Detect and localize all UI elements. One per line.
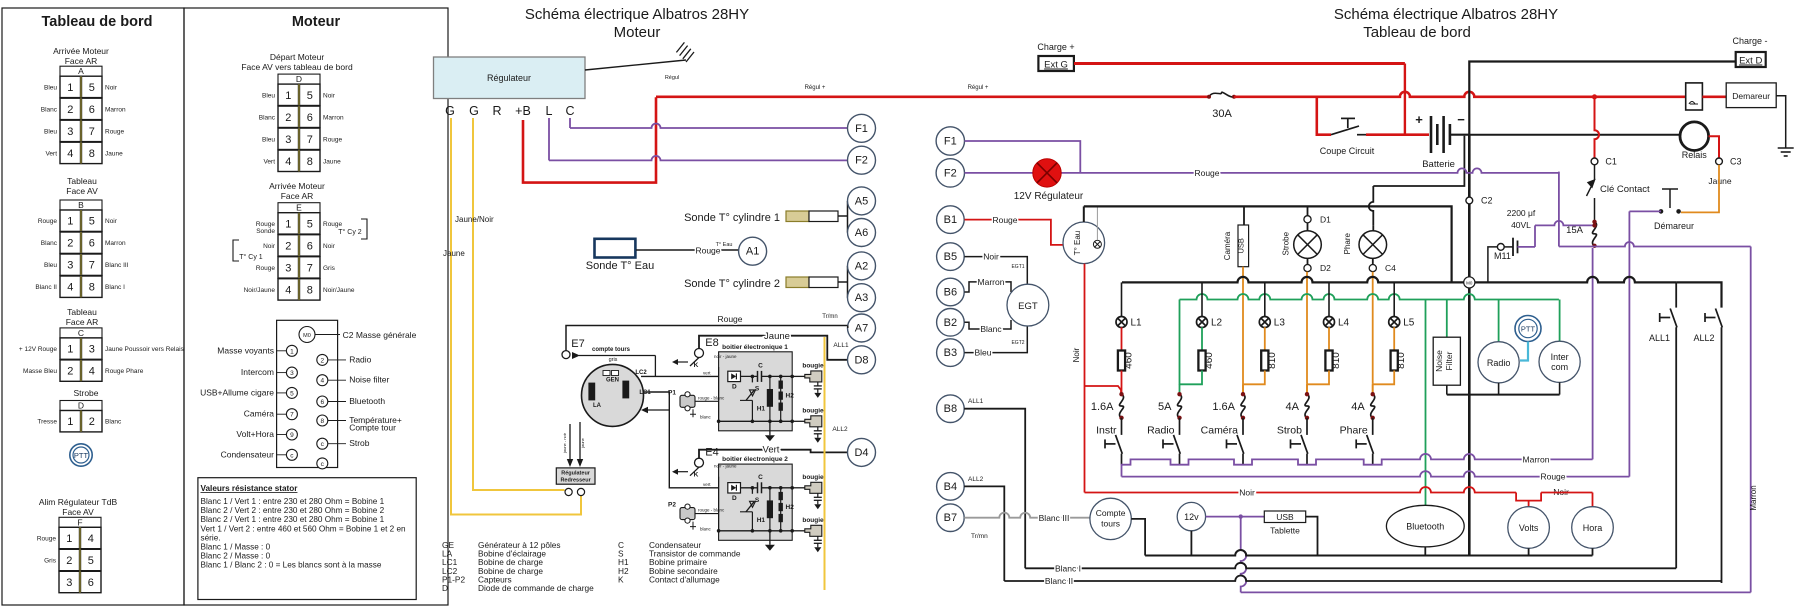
- svg-text:Vert: Vert: [263, 158, 275, 165]
- svg-text:C4: C4: [1385, 263, 1396, 273]
- node B5: [937, 243, 965, 271]
- svg-text:1: 1: [285, 218, 291, 230]
- wire L1 resistor to fuse 1.6A: [1121, 371, 1123, 395]
- svg-text:Marron: Marron: [978, 277, 1005, 287]
- svg-text:Marron: Marron: [1749, 485, 1758, 510]
- svg-text:Bleu: Bleu: [44, 84, 57, 91]
- svg-text:Masse Bleu: Masse Bleu: [23, 368, 57, 375]
- wire red C1 drop: [1595, 97, 1600, 158]
- svg-text:Régulateur: Régulateur: [561, 471, 591, 477]
- svg-text:Caméra: Caméra: [1201, 425, 1239, 437]
- wire violet demarreur down: [1629, 210, 1661, 212]
- node E7: [562, 351, 570, 359]
- svg-text:Face AR: Face AR: [65, 56, 98, 66]
- svg-text:F2: F2: [944, 167, 957, 179]
- svg-text:Blanc I: Blanc I: [105, 284, 125, 291]
- svg-text:810: 810: [1267, 352, 1278, 369]
- svg-text:noir - jaune: noir - jaune: [714, 354, 737, 359]
- node M11: [1497, 244, 1504, 251]
- svg-text:ALL2: ALL2: [832, 426, 848, 433]
- bottom purple marron line: [1241, 591, 1751, 593]
- svg-text:2: 2: [67, 366, 73, 378]
- wire L5 resistor to fuse 4A: [1373, 371, 1395, 385]
- svg-text:Valeurs résistance stator: Valeurs résistance stator: [201, 484, 299, 493]
- svg-text:Rouge: Rouge: [1540, 472, 1565, 482]
- Hora gauge: [1572, 507, 1614, 549]
- camera USB branch: [1243, 206, 1245, 225]
- 12v gauge: [1177, 502, 1205, 530]
- block pin 5 USB+Allume cigare: [286, 387, 297, 398]
- main line boitier 1: [741, 375, 757, 377]
- svg-text:Rouge: Rouge: [256, 265, 276, 272]
- svg-text:Noir: Noir: [983, 252, 999, 262]
- svg-text:Alim Régulateur TdB: Alim Régulateur TdB: [39, 497, 118, 507]
- svg-text:Arrivée Moteur: Arrivée Moteur: [269, 181, 325, 191]
- svg-text:Marron: Marron: [105, 240, 126, 247]
- svg-text:Jaune: Jaune: [764, 331, 790, 342]
- svg-text:+ 12V Rouge: + 12V Rouge: [19, 346, 58, 353]
- svg-text:2: 2: [67, 104, 73, 116]
- svg-text:Tableau: Tableau: [67, 307, 97, 317]
- svg-text:G: G: [445, 104, 455, 118]
- wire jaune G1: [473, 118, 565, 490]
- PTT button: [1515, 316, 1541, 342]
- svg-text:4: 4: [320, 378, 324, 385]
- svg-text:USB: USB: [1276, 512, 1294, 522]
- coil H1 2: [767, 501, 772, 518]
- svg-text:LA: LA: [593, 403, 602, 409]
- svg-text:3: 3: [290, 370, 294, 377]
- svg-text:Schéma électrique Albatros 28H: Schéma électrique Albatros 28HY: [525, 6, 749, 23]
- svg-text:810: 810: [1396, 352, 1407, 369]
- svg-text:1: 1: [290, 348, 294, 355]
- svg-text:5: 5: [89, 82, 95, 94]
- svg-text:Bleu: Bleu: [44, 262, 57, 269]
- node D1: [1304, 216, 1311, 223]
- wire rouge sonde eau to A1: [636, 249, 739, 251]
- svg-text:4: 4: [67, 148, 73, 160]
- svg-text:Noise: Noise: [1434, 350, 1444, 372]
- svg-text:Noir: Noir: [105, 84, 118, 91]
- svg-text:12V Régulateur: 12V Régulateur: [1014, 191, 1084, 202]
- svg-text:Rouge: Rouge: [37, 536, 57, 543]
- svg-text:Blanc: Blanc: [41, 106, 58, 113]
- svg-text:T° Eau: T° Eau: [1073, 231, 1082, 256]
- svg-text:C: C: [78, 328, 84, 338]
- svg-text:4: 4: [285, 156, 291, 168]
- svg-text:8: 8: [307, 284, 313, 296]
- redresseur terminals: [565, 488, 572, 495]
- svg-text:3: 3: [67, 260, 73, 272]
- svg-text:B8: B8: [944, 403, 957, 415]
- svg-text:2: 2: [66, 555, 72, 567]
- svg-text:Face AV: Face AV: [62, 507, 94, 517]
- wire jaune vertical right of bougies: [824, 337, 826, 590]
- svg-text:460: 460: [1124, 352, 1135, 369]
- svg-text:6: 6: [89, 104, 95, 116]
- block pin 3 Intercom: [286, 367, 297, 378]
- svg-text:blanc: blanc: [700, 527, 712, 532]
- svg-text:D: D: [732, 383, 737, 390]
- generator GEN: [582, 364, 644, 426]
- node F2 motor side: [848, 146, 876, 174]
- svg-text:L1: L1: [1131, 318, 1143, 329]
- block pin 4 Noise filter: [317, 375, 328, 386]
- svg-text:noir - jaune: noir - jaune: [714, 464, 737, 469]
- wire red relay to demareur box: [1702, 96, 1726, 99]
- svg-text:PTT: PTT: [74, 451, 89, 460]
- svg-text:8: 8: [307, 156, 313, 168]
- wire violet 15A bottom to marron vertical right: [1595, 242, 1751, 247]
- transistor S 1: [746, 390, 754, 400]
- battery: [1430, 116, 1433, 153]
- svg-text:Face AV vers tableau de bord: Face AV vers tableau de bord: [241, 62, 353, 72]
- coil LC1 LC2: [623, 381, 629, 398]
- svg-text:8: 8: [89, 148, 95, 160]
- svg-text:K: K: [694, 472, 699, 479]
- svg-text:Instr: Instr: [1096, 425, 1117, 437]
- node F1 panel side: [936, 127, 964, 155]
- wire cyan PTT to radio: [1520, 342, 1528, 361]
- svg-text:Bleu: Bleu: [974, 348, 991, 358]
- svg-text:LC2: LC2: [635, 370, 647, 376]
- wire red drop to coupe circuit: [1317, 97, 1331, 135]
- svg-text:B4: B4: [944, 481, 957, 493]
- svg-text:−: −: [1457, 112, 1465, 127]
- coil H1 1: [767, 389, 772, 406]
- svg-text:M0: M0: [303, 333, 311, 339]
- boitier electronique 1 box: [719, 352, 793, 431]
- svg-text:H2: H2: [786, 392, 795, 399]
- wire violet L to F2: [549, 156, 848, 161]
- svg-text:S: S: [755, 497, 760, 504]
- svg-text:Noir: Noir: [263, 243, 276, 250]
- svg-text:8: 8: [320, 418, 324, 425]
- svg-text:Noir/Jaune: Noir/Jaune: [244, 287, 276, 294]
- svg-text:D2: D2: [1320, 263, 1331, 273]
- svg-text:B7: B7: [944, 512, 957, 524]
- svg-text:ALL2: ALL2: [968, 476, 984, 483]
- svg-text:A6: A6: [855, 227, 868, 239]
- wire Vert E4 to D4: [699, 450, 848, 459]
- wire noir B4 to Blanc II line: [964, 486, 1004, 581]
- svg-text:15A: 15A: [1566, 225, 1584, 236]
- svg-text:com: com: [1551, 362, 1568, 372]
- compte tours arrow line: [572, 352, 580, 359]
- Volts gauge: [1508, 507, 1550, 549]
- svg-text:Blanc 2 / Masse : 0: Blanc 2 / Masse : 0: [201, 552, 271, 561]
- svg-text:3: 3: [67, 126, 73, 138]
- gen arrow lower: [641, 407, 648, 413]
- node D2: [1304, 265, 1311, 272]
- svg-text:F1: F1: [944, 136, 957, 148]
- wire rouge +B to regul+: [523, 97, 656, 182]
- svg-text:Rouge: Rouge: [1194, 168, 1219, 178]
- wire noir battery to relais: [1469, 134, 1680, 136]
- svg-text:Rouge: Rouge: [38, 218, 58, 225]
- svg-text:Strobe: Strobe: [1282, 231, 1291, 255]
- svg-text:Régul +: Régul +: [968, 85, 989, 91]
- red dip to volts: [1516, 493, 1541, 501]
- svg-text:Radio: Radio: [1487, 358, 1511, 368]
- svg-text:G: G: [469, 104, 479, 118]
- svg-text:Blanc 2 / Vert 2 : entre 230 e: Blanc 2 / Vert 2 : entre 230 et 280 Ohm …: [201, 506, 385, 515]
- svg-text:Phare: Phare: [1340, 425, 1368, 437]
- node E4: [695, 458, 704, 467]
- svg-text:PTT: PTT: [1521, 325, 1536, 334]
- coil H2 2: [779, 492, 783, 500]
- svg-text:2: 2: [285, 112, 291, 124]
- svg-text:C1: C1: [1605, 156, 1617, 166]
- svg-text:Rouge: Rouge: [717, 314, 742, 324]
- svg-text:Contact d'allumage: Contact d'allumage: [649, 574, 720, 584]
- svg-text:EGT2: EGT2: [1011, 340, 1024, 346]
- lamp L5 column: [1393, 282, 1395, 317]
- svg-text:3: 3: [285, 134, 291, 146]
- svg-text:Sonde T° cylindre 1: Sonde T° cylindre 1: [684, 212, 780, 224]
- svg-text:6: 6: [307, 112, 313, 124]
- svg-text:12v: 12v: [1184, 512, 1199, 522]
- svg-text:Compte tour: Compte tour: [349, 423, 396, 433]
- node A5: [848, 187, 876, 215]
- svg-text:boitier électronique 1: boitier électronique 1: [722, 344, 788, 351]
- wire gen to boitier1 vert: [641, 375, 728, 377]
- phare lamp: [1359, 231, 1387, 259]
- wire gris B7 Blanc III to compte tours: [964, 513, 1090, 518]
- PTT button left panel: [70, 444, 92, 466]
- svg-text:1: 1: [66, 533, 72, 545]
- wire blanc B2 to EGT: [965, 320, 1012, 329]
- svg-text:C3: C3: [1730, 156, 1742, 166]
- connector block C2 Masse generale: [277, 320, 338, 467]
- node B3: [937, 339, 965, 367]
- svg-text:Noir/Jaune: Noir/Jaune: [323, 287, 355, 294]
- svg-text:T° Eau: T° Eau: [716, 242, 733, 248]
- purple marron line to 15A: [1418, 454, 1593, 459]
- svg-text:Redresseur: Redresseur: [560, 478, 591, 484]
- switch ALL1: [1660, 317, 1671, 319]
- svg-text:7: 7: [290, 412, 294, 419]
- node A2: [848, 252, 876, 280]
- ground boitier 2: [769, 531, 771, 545]
- svg-text:vert: vert: [703, 482, 711, 487]
- svg-text:Inter: Inter: [1551, 352, 1569, 362]
- green taps: [1179, 300, 1181, 385]
- node M0: [1464, 277, 1475, 288]
- svg-text:1: 1: [67, 416, 73, 428]
- capacitor symbol: [1504, 246, 1513, 248]
- svg-text:7: 7: [89, 260, 95, 272]
- svg-text:C: C: [565, 104, 574, 118]
- Bluetooth gauge: [1386, 505, 1464, 547]
- purple switch bus zigzag: [1122, 459, 1419, 476]
- node B2: [937, 309, 965, 337]
- lamp L3 column: [1264, 282, 1266, 317]
- svg-text:Vert: Vert: [763, 445, 780, 456]
- Compte tours gauge: [1090, 498, 1131, 539]
- demarreur push button: [1659, 209, 1664, 214]
- svg-text:Rouge: Rouge: [992, 215, 1017, 225]
- Regulateur Redresseur box: [556, 468, 595, 484]
- strobe branch: [1307, 206, 1309, 215]
- svg-text:M11: M11: [1494, 251, 1511, 261]
- svg-text:4A: 4A: [1351, 401, 1365, 413]
- wire rouge T Eau down: [1084, 264, 1086, 493]
- wire orange strobe down to fuse: [1306, 272, 1308, 384]
- svg-text:LC1: LC1: [639, 390, 651, 396]
- svg-text:Charge +: Charge +: [1037, 42, 1074, 52]
- svg-text:4: 4: [88, 533, 94, 545]
- svg-text:Marron: Marron: [1523, 454, 1550, 464]
- svg-text:Blanc III: Blanc III: [105, 262, 129, 269]
- svg-text:tours: tours: [1101, 519, 1120, 529]
- svg-text:Bleu: Bleu: [262, 136, 275, 143]
- svg-text:Tr/mn: Tr/mn: [822, 314, 837, 320]
- wire L2 resistor to fuse 5A: [1180, 371, 1203, 385]
- block pin c Condensateur: [286, 449, 297, 460]
- svg-text:K: K: [694, 362, 699, 369]
- svg-text:USB: USB: [1237, 238, 1246, 253]
- svg-text:5A: 5A: [1158, 401, 1172, 413]
- svg-text:GEN: GEN: [606, 378, 619, 384]
- svg-text:1: 1: [67, 216, 73, 228]
- svg-text:Blanc 2 / Vert 1 : entre 230 e: Blanc 2 / Vert 1 : entre 230 et 280 Ohm …: [201, 515, 385, 524]
- svg-text:H1: H1: [757, 405, 766, 412]
- EGT gauge: [1007, 284, 1049, 326]
- svg-text:Noir: Noir: [105, 218, 118, 225]
- svg-text:R: R: [492, 104, 501, 118]
- svg-text:4A: 4A: [1286, 401, 1300, 413]
- wire bleu B3 to EGT: [965, 326, 1028, 353]
- wire USB to ground line: [1306, 517, 1318, 556]
- svg-text:A3: A3: [855, 292, 868, 304]
- svg-text:Gris: Gris: [323, 265, 336, 272]
- wire violet F1 to junction: [965, 141, 1081, 173]
- svg-text:2: 2: [89, 416, 95, 428]
- svg-text:Rouge: Rouge: [105, 128, 125, 135]
- svg-text:Noir: Noir: [323, 92, 336, 99]
- transistor S 2: [746, 502, 754, 512]
- sensor P1: [680, 395, 695, 407]
- svg-text:Volt+Hora: Volt+Hora: [236, 429, 274, 439]
- svg-text:3: 3: [285, 262, 291, 274]
- red to hora: [1592, 493, 1594, 507]
- bottom line boitier 2: [719, 530, 793, 532]
- svg-text:Ext D: Ext D: [1739, 56, 1762, 67]
- svg-text:9: 9: [290, 432, 294, 439]
- bottom line boitier 1: [719, 420, 793, 422]
- svg-text:B: B: [78, 200, 84, 210]
- wire regulateur to ground: [585, 60, 686, 70]
- svg-text:M0: M0: [1466, 281, 1473, 286]
- wire violet tablette feed: [1241, 517, 1247, 593]
- svg-text:Intercom: Intercom: [241, 367, 274, 377]
- phare feed from battery minus: [1369, 186, 1374, 226]
- svg-text:EGT: EGT: [1018, 301, 1038, 312]
- svg-text:Strob: Strob: [349, 438, 370, 448]
- block pin 7 Caméra: [286, 409, 297, 420]
- svg-text:+B: +B: [515, 104, 531, 118]
- block pin 1 Masse voyants: [286, 345, 297, 356]
- svg-text:A5: A5: [855, 195, 868, 207]
- relais circle: [1680, 122, 1709, 151]
- wire gen top to compte tours: [654, 356, 656, 377]
- wire violet 15A bottom down to marron bus: [1592, 248, 1594, 459]
- svg-text:Blanc II: Blanc II: [1045, 576, 1073, 586]
- lamp 12V Regulateur: [1033, 159, 1061, 187]
- svg-text:7: 7: [307, 134, 313, 146]
- svg-text:Condensateur: Condensateur: [221, 449, 275, 459]
- wire T Eau to top bus: [1083, 206, 1085, 222]
- svg-text:2200 μf: 2200 μf: [1507, 208, 1536, 218]
- wire noir B8 to Blanc I line: [964, 409, 1025, 569]
- svg-text:P2: P2: [668, 502, 676, 509]
- svg-text:A1: A1: [746, 246, 759, 258]
- svg-text:E4: E4: [705, 447, 718, 459]
- block pin c: [317, 458, 328, 469]
- svg-text:H2: H2: [786, 504, 795, 511]
- battery vertical to C2 M0: [1468, 135, 1471, 556]
- svg-text:L4: L4: [1338, 318, 1350, 329]
- node B7: [937, 504, 965, 532]
- svg-text:USB+Allume cigare: USB+Allume cigare: [200, 387, 274, 397]
- svg-text:Jaune: Jaune: [323, 158, 341, 165]
- purple rouge line: [1122, 471, 1630, 477]
- svg-text:Jaune/Noir: Jaune/Noir: [455, 215, 494, 224]
- svg-text:D: D: [78, 401, 84, 411]
- svg-text:Blanc 1 / Masse : 0: Blanc 1 / Masse : 0: [201, 543, 271, 552]
- node E8: [695, 349, 704, 358]
- svg-text:D: D: [296, 74, 302, 84]
- wire L4 resistor to fuse 4A: [1307, 371, 1329, 385]
- red noir line: [1085, 487, 1517, 493]
- svg-text:H1: H1: [757, 517, 766, 524]
- svg-text:Blanc III: Blanc III: [1039, 513, 1070, 523]
- boitier electronique 2 box: [719, 464, 793, 540]
- coil LA: [589, 383, 595, 400]
- svg-text:D4: D4: [854, 447, 868, 459]
- wire battery minus to vertical: [1450, 134, 1469, 136]
- svg-text:40VL: 40VL: [1511, 220, 1531, 230]
- svg-text:jaune: jaune: [580, 437, 585, 449]
- svg-text:Jaune Poussoir vers Relais: Jaune Poussoir vers Relais: [105, 346, 185, 353]
- wire violet capacitor to 15A top: [1518, 246, 1536, 248]
- svg-text:Caméra: Caméra: [1223, 231, 1232, 260]
- svg-text:Tableau: Tableau: [67, 176, 97, 186]
- wire bluetooth bottom: [1424, 547, 1426, 556]
- node B4: [937, 473, 965, 501]
- M0 bus noir: [1122, 277, 1676, 283]
- svg-text:jaune - noir: jaune - noir: [562, 432, 567, 454]
- svg-text:30A: 30A: [1212, 108, 1232, 120]
- svg-text:Charge -: Charge -: [1732, 36, 1767, 46]
- svg-text:Radio: Radio: [349, 354, 371, 364]
- wire L3 resistor to fuse 1.6A: [1243, 371, 1265, 385]
- svg-text:+: +: [1415, 112, 1423, 127]
- Noise Filter box: [1433, 337, 1460, 385]
- wire orange camera USB down to fuse: [1242, 267, 1244, 385]
- svg-text:F: F: [77, 517, 82, 527]
- svg-text:Strob: Strob: [1277, 425, 1302, 437]
- svg-text:B3: B3: [944, 347, 957, 359]
- svg-text:1: 1: [67, 344, 73, 356]
- ground boitier 1: [769, 421, 771, 435]
- svg-text:Coupe Circuit: Coupe Circuit: [1320, 146, 1375, 156]
- node F2 panel side: [936, 159, 964, 187]
- svg-text:7: 7: [307, 262, 313, 274]
- svg-text:E: E: [296, 203, 302, 213]
- svg-text:E8: E8: [705, 337, 718, 349]
